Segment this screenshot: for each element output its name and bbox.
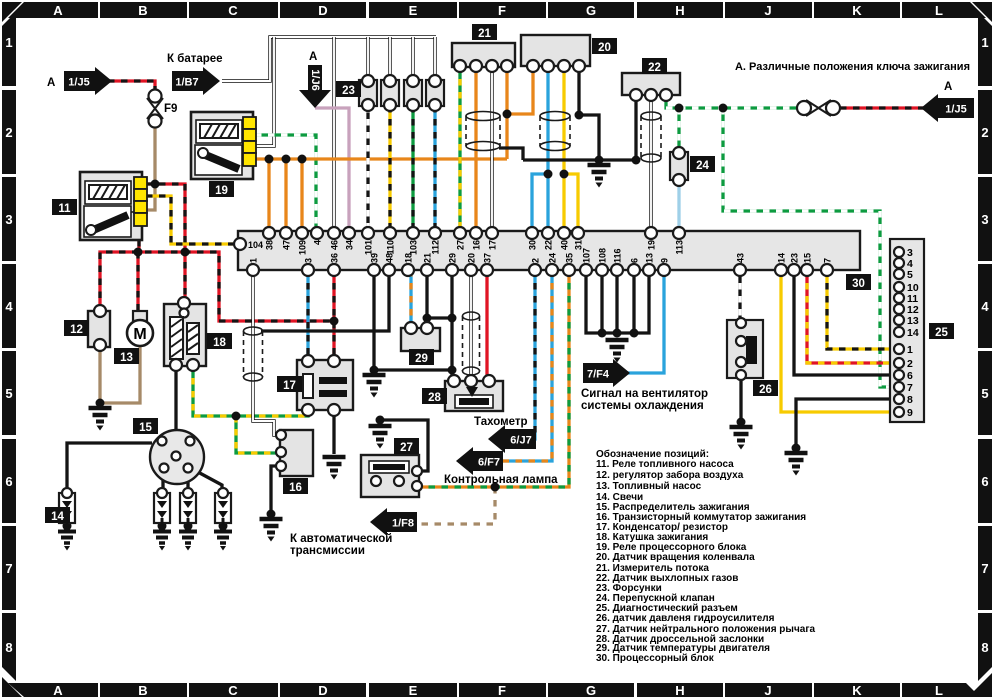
wire orange 21 to bar pin 16 xyxy=(474,66,477,233)
svg-text:3: 3 xyxy=(5,212,12,227)
wire blue/black bar pin 2 to tachometer 6/J7 xyxy=(533,270,535,439)
wire red/yellow bar pin 15 to diagnostic pin 2 xyxy=(807,270,894,363)
injector 23-2 xyxy=(381,75,399,111)
svg-text:Контрольная лампа: Контрольная лампа xyxy=(444,474,558,486)
spark plug 14-2 xyxy=(154,488,170,526)
arrow 1/J6 down xyxy=(299,65,331,108)
svg-text:104: 104 xyxy=(248,240,263,250)
wire black 16 to ground xyxy=(271,466,281,516)
svg-text:1/F8: 1/F8 xyxy=(392,518,414,530)
svg-text:А: А xyxy=(309,51,317,63)
spark plug 14-4 xyxy=(215,488,231,526)
svg-text:L: L xyxy=(935,683,943,698)
svg-text:30. Процессорный блок: 30. Процессорный блок xyxy=(596,652,715,664)
svg-text:26. датчик давленя гидроусилит: 26. датчик давленя гидроусилителя xyxy=(596,613,775,624)
wire black distributor to plug 1 xyxy=(67,443,152,493)
svg-text:30: 30 xyxy=(528,240,538,250)
wire yellow 20 to bar pins 40 and 31 xyxy=(562,66,565,233)
svg-text:43: 43 xyxy=(736,253,746,263)
svg-text:6: 6 xyxy=(630,258,640,263)
svg-text:C: C xyxy=(228,683,238,698)
svg-text:4: 4 xyxy=(313,240,323,245)
ground spark plug 4 xyxy=(214,532,232,551)
tag 30 xyxy=(846,274,871,290)
svg-text:18: 18 xyxy=(213,337,226,349)
wire green/white 22 to lamp and valve 24 xyxy=(666,95,797,108)
processor block 30 (main connector bar) xyxy=(234,231,860,270)
ground switch 27 xyxy=(369,426,392,449)
svg-text:11: 11 xyxy=(58,203,71,215)
svg-text:A: A xyxy=(53,3,63,18)
wire black bar pin 48 to shield of pin 1 wire xyxy=(261,270,389,331)
wire blue/orange bar pin 18 to sensor 29 xyxy=(409,270,412,328)
tag 27 xyxy=(394,438,419,454)
svg-text:А. Различные положения ключа з: А. Различные положения ключа зажигания xyxy=(735,61,970,73)
wire orange drops to bar pins 38 47 109 xyxy=(267,159,270,233)
arrow 7/F4 fan signal xyxy=(583,359,630,387)
bar top pins xyxy=(263,227,685,255)
svg-text:14: 14 xyxy=(51,511,64,523)
ground pumps 12 13 xyxy=(89,408,112,431)
svg-text:7: 7 xyxy=(907,382,913,394)
svg-text:5: 5 xyxy=(5,386,12,401)
tag 20 xyxy=(592,38,617,54)
svg-text:107: 107 xyxy=(582,248,592,263)
transistor commutator 16 xyxy=(276,430,313,476)
ground capacitor 17 xyxy=(323,457,346,480)
svg-text:E: E xyxy=(409,3,418,18)
wire injector 3 green/black to pin 103 xyxy=(411,106,414,233)
tag 11 xyxy=(52,199,77,215)
svg-text:1/J6: 1/J6 xyxy=(309,69,321,90)
shield around bar pin 20 wire xyxy=(463,312,480,375)
fuse F9 xyxy=(147,90,163,128)
wire green/white relay 19 to bar pin 4 xyxy=(255,135,316,233)
svg-text:109: 109 xyxy=(298,240,308,255)
svg-text:17: 17 xyxy=(283,380,296,392)
oxygen sensor 22 xyxy=(622,73,680,101)
svg-text:D: D xyxy=(318,3,327,18)
wire black bar pins 21 29 to sensor 29 xyxy=(425,270,428,328)
arrow 6/F7 control lamp xyxy=(456,447,503,475)
wire green/orange bar pin 35 to switch 27 xyxy=(419,270,569,487)
svg-text:16: 16 xyxy=(289,482,302,494)
svg-text:23: 23 xyxy=(342,85,355,97)
injector 23-3 xyxy=(404,75,422,111)
wire red/black relay 11 stub xyxy=(137,240,140,252)
tag 17 xyxy=(277,376,302,392)
svg-text:28: 28 xyxy=(428,392,441,404)
svg-text:9: 9 xyxy=(907,407,913,419)
tag 15 xyxy=(133,418,158,434)
svg-text:110: 110 xyxy=(386,240,396,255)
wire injector 4 blue/black to pin 112 xyxy=(433,106,436,233)
svg-text:H: H xyxy=(675,683,684,698)
svg-text:Сигнал на вентилятор: Сигнал на вентилятор xyxy=(581,388,708,400)
svg-text:G: G xyxy=(586,683,596,698)
svg-text:7: 7 xyxy=(5,561,12,576)
svg-text:24: 24 xyxy=(548,253,558,263)
wire violet 1/J6 to bar pin 34 xyxy=(315,108,349,233)
svg-text:112: 112 xyxy=(431,240,441,255)
wire red/black bar pin 36 to capacitor 17 xyxy=(332,270,335,361)
wire green/yellow 21 to bar pin 27 xyxy=(458,66,461,233)
svg-text:21: 21 xyxy=(478,28,491,40)
ground at sensor 20/22 shield xyxy=(588,165,611,188)
injector 23-1 xyxy=(359,75,377,111)
svg-text:30: 30 xyxy=(852,278,865,290)
temperature sensor 29 xyxy=(401,322,440,351)
ground spark plug 3 xyxy=(179,532,197,551)
svg-text:19: 19 xyxy=(647,240,657,250)
wire yellow/black bar pin 7 to diagnostic pin 1 xyxy=(827,270,894,349)
svg-text:8: 8 xyxy=(5,640,12,655)
svg-text:J: J xyxy=(764,683,771,698)
svg-text:1: 1 xyxy=(249,258,259,263)
tag 22 xyxy=(642,58,667,74)
svg-text:37: 37 xyxy=(483,253,493,263)
svg-text:7: 7 xyxy=(981,561,988,576)
svg-text:8: 8 xyxy=(981,640,988,655)
relay 11 (fuel pump relay) xyxy=(80,172,147,240)
wire white bar pin 20 to sensor 28 xyxy=(469,270,472,381)
node junction dots xyxy=(63,104,801,531)
svg-text:6/J7: 6/J7 xyxy=(510,435,531,447)
air regulator 12 xyxy=(88,305,110,351)
svg-text:13. Топливный насос: 13. Топливный насос xyxy=(596,481,702,492)
svg-text:6/F7: 6/F7 xyxy=(478,457,500,469)
svg-text:27: 27 xyxy=(456,240,466,250)
svg-text:системы охлаждения: системы охлаждения xyxy=(581,400,704,412)
wire orange riser to 21 pin4 and 20 pin1 xyxy=(505,66,508,159)
svg-text:К батарее: К батарее xyxy=(167,53,223,65)
svg-text:А: А xyxy=(944,81,952,93)
svg-text:113: 113 xyxy=(675,240,685,255)
svg-text:Тахометр: Тахометр xyxy=(474,416,528,428)
svg-text:3: 3 xyxy=(981,212,988,227)
svg-text:1: 1 xyxy=(5,35,12,50)
svg-text:29: 29 xyxy=(415,353,428,365)
svg-text:C: C xyxy=(228,3,238,18)
svg-text:16: 16 xyxy=(472,240,482,250)
svg-text:22: 22 xyxy=(544,240,554,250)
svg-text:К автоматической: К автоматической xyxy=(290,533,392,545)
svg-text:20: 20 xyxy=(598,42,611,54)
pressure sensor 26 xyxy=(727,318,763,380)
diagnostic connector 25 xyxy=(890,239,924,422)
svg-text:F: F xyxy=(498,3,506,18)
wire black bar pin 23 to diagnostic pin 6 xyxy=(794,270,894,375)
svg-text:116: 116 xyxy=(613,248,623,263)
arrow 1/J5 left xyxy=(64,67,112,95)
wire yellow bar pin 14 to diagnostic pin 9 xyxy=(781,270,894,412)
arrow 6/J7 tachometer xyxy=(488,425,536,453)
wire green/yellow coil 18 to 17 and 16 xyxy=(193,365,308,416)
svg-text:L: L xyxy=(935,3,943,18)
svg-text:25: 25 xyxy=(935,327,948,339)
wire black diagnostic pin 8 to ground xyxy=(796,399,894,450)
svg-text:108: 108 xyxy=(598,248,608,263)
tag 16 xyxy=(283,478,308,494)
svg-text:13: 13 xyxy=(120,352,133,364)
svg-text:17: 17 xyxy=(488,240,498,250)
tag 21 xyxy=(472,24,497,40)
tag 18 xyxy=(207,333,232,349)
svg-text:46: 46 xyxy=(330,240,340,250)
svg-text:38: 38 xyxy=(265,240,275,250)
svg-text:15: 15 xyxy=(803,253,813,263)
svg-text:A: A xyxy=(53,683,63,698)
svg-text:35: 35 xyxy=(565,253,575,263)
shield around bar pin 1 wire xyxy=(244,327,263,381)
svg-text:36: 36 xyxy=(330,253,340,263)
wire white 22 to bar pin 19 xyxy=(649,95,652,233)
wire blue/black bar pin 3 to capacitor 17 xyxy=(306,270,309,361)
svg-text:12. регулятор забора воздуха: 12. регулятор забора воздуха xyxy=(596,469,744,481)
svg-text:8: 8 xyxy=(907,394,913,406)
ground diagnostic pin 8 xyxy=(785,453,808,476)
arrow 1/J5 right xyxy=(921,94,974,122)
svg-text:F: F xyxy=(498,683,506,698)
wire brown ground of 12 and M xyxy=(98,345,101,403)
wire red/black to fuel pump M xyxy=(136,252,139,313)
injector 23-4 xyxy=(426,75,444,111)
svg-text:4: 4 xyxy=(981,299,989,314)
svg-text:103: 103 xyxy=(409,240,419,255)
svg-text:M: M xyxy=(133,326,146,343)
wire yellow/black relay 11 to bar pin 104 xyxy=(146,196,233,244)
wire green/white to diagnostic pin 7 xyxy=(723,108,894,387)
tag 12 xyxy=(64,320,89,336)
ground sensor 26 xyxy=(730,427,753,450)
wire blue bar pin 9 to fan 7/F4 xyxy=(624,270,664,373)
svg-text:F9: F9 xyxy=(164,103,177,115)
svg-text:А: А xyxy=(47,77,55,89)
wire blue/orange bar pin 24 to 6/F7 xyxy=(497,270,552,461)
wire blue 20 to bar pins 22 and 30 xyxy=(546,66,549,233)
wire black 17 to ground xyxy=(332,410,335,454)
wire red/black relay 11 switch feed xyxy=(146,184,185,303)
wire brown/white to 1/F8 xyxy=(412,487,495,524)
crankshaft sensor 20 xyxy=(521,35,590,72)
svg-text:5: 5 xyxy=(981,386,988,401)
wire light blue valve 24 to bar pin 113 xyxy=(677,181,680,233)
svg-text:6: 6 xyxy=(981,474,988,489)
svg-text:6: 6 xyxy=(5,474,12,489)
svg-text:3: 3 xyxy=(304,258,314,263)
bar bottom pins xyxy=(247,248,833,276)
svg-text:2: 2 xyxy=(531,258,541,263)
wire white drops to injectors 23 xyxy=(366,37,369,80)
wire red/black pump feed bus xyxy=(100,252,334,321)
tag 29 xyxy=(409,349,434,365)
wire white bar pin 1 to commutator 16 xyxy=(253,270,278,435)
tag 26 xyxy=(753,380,778,396)
svg-text:2: 2 xyxy=(907,358,913,370)
ground spark plug 2 xyxy=(153,532,171,551)
wire white bus to bar pin 46 xyxy=(332,37,335,233)
ground spark plug 1 xyxy=(58,532,76,551)
wire black bar pin 39 ground bus xyxy=(374,270,453,370)
svg-text:48: 48 xyxy=(385,253,395,263)
tag 14 xyxy=(45,507,70,523)
wire black distributor to plugs 2 3 4 xyxy=(161,477,164,493)
distributor 15 xyxy=(150,430,204,484)
svg-text:G: G xyxy=(586,3,596,18)
svg-text:1/B7: 1/B7 xyxy=(175,77,198,89)
arrow 1/B7 to battery xyxy=(172,67,220,95)
wire black coil 18 to distributor 15 xyxy=(174,365,177,432)
spark plug 14-1 xyxy=(59,488,75,526)
svg-text:4: 4 xyxy=(5,299,13,314)
svg-text:26: 26 xyxy=(759,384,772,396)
svg-text:18: 18 xyxy=(404,253,414,263)
svg-text:H: H xyxy=(675,3,684,18)
tag 23 xyxy=(336,81,361,97)
capacitor/resistor 17 xyxy=(297,355,353,416)
svg-text:B: B xyxy=(138,3,147,18)
svg-text:D: D xyxy=(318,683,327,698)
wire brown F9 to relay 11 coil xyxy=(146,126,155,210)
svg-text:29: 29 xyxy=(448,253,458,263)
svg-text:101: 101 xyxy=(364,240,374,255)
wire white bus from 1/B7 xyxy=(222,37,436,81)
svg-text:E: E xyxy=(409,683,418,698)
tag 19 xyxy=(209,181,234,197)
svg-text:21: 21 xyxy=(423,253,433,263)
svg-text:13: 13 xyxy=(907,315,919,327)
wire injector 2 yellow/black to pin 110 xyxy=(388,106,391,233)
svg-text:J: J xyxy=(764,3,771,18)
svg-text:K: K xyxy=(852,3,862,18)
wire white 21 to bar pin 17 xyxy=(490,66,493,233)
ignition coil 18 xyxy=(164,297,206,371)
svg-text:1/J5: 1/J5 xyxy=(68,77,89,89)
bypass valve 24 xyxy=(670,147,688,186)
svg-text:20: 20 xyxy=(467,253,477,263)
svg-text:47: 47 xyxy=(282,240,292,250)
svg-text:15: 15 xyxy=(139,422,152,434)
svg-text:1: 1 xyxy=(907,344,913,356)
wire white to relay 19 coil xyxy=(255,37,274,146)
shield around 22 sensor wire xyxy=(641,112,661,162)
svg-text:40: 40 xyxy=(560,240,570,250)
wire black bar pins 107 108 116 6 13 ground xyxy=(586,270,649,333)
ignition switch lamp symbol xyxy=(797,100,840,116)
ground commutator 16 xyxy=(260,519,283,542)
ground bar pins 107-13 xyxy=(606,340,629,363)
tag 25 xyxy=(929,323,954,339)
wire red bar pin 37 to sensor 28 xyxy=(485,270,488,381)
svg-text:K: K xyxy=(852,683,862,698)
svg-text:5: 5 xyxy=(907,269,913,281)
fuel pump 13 (motor M) xyxy=(127,311,153,346)
wire injector 1 black/white to pin 101 xyxy=(366,106,369,233)
svg-text:2: 2 xyxy=(5,125,12,140)
svg-text:1: 1 xyxy=(981,35,988,50)
svg-text:9: 9 xyxy=(660,258,670,263)
relay 19 (processor block relay) xyxy=(191,112,256,179)
tag 13 xyxy=(114,348,139,364)
shield around 20 sensor wires xyxy=(540,112,570,151)
air flow meter 21 xyxy=(452,43,515,72)
throttle sensor 28 xyxy=(445,375,503,411)
svg-text:2: 2 xyxy=(981,125,988,140)
wire black sensor 26 to ground xyxy=(739,375,742,424)
svg-text:трансмиссии: трансмиссии xyxy=(290,545,365,557)
svg-text:34: 34 xyxy=(345,240,355,250)
svg-text:12: 12 xyxy=(70,324,83,336)
svg-text:24: 24 xyxy=(696,160,709,172)
svg-text:20. Датчик вращения коленвала: 20. Датчик вращения коленвала xyxy=(596,552,755,563)
wire orange relay 19 bus xyxy=(255,157,507,160)
svg-text:7/F4: 7/F4 xyxy=(587,369,610,381)
arrow 1/F8 automatic transmission xyxy=(370,508,417,536)
svg-text:19: 19 xyxy=(215,185,228,197)
wire black 20 pin4 to ground bus xyxy=(579,66,599,160)
svg-text:11. Реле топливного насоса: 11. Реле топливного насоса xyxy=(596,459,734,470)
tag 24 xyxy=(690,156,715,172)
svg-text:14: 14 xyxy=(777,253,787,263)
svg-text:7: 7 xyxy=(823,258,833,263)
legend xyxy=(596,448,815,664)
svg-text:23: 23 xyxy=(790,253,800,263)
shield around 21 sensor wires xyxy=(466,112,500,151)
svg-text:B: B xyxy=(138,683,147,698)
spark plug 14-3 xyxy=(180,488,196,526)
wire black/white bar pin 43 to sensor 26 xyxy=(738,270,741,323)
svg-text:6: 6 xyxy=(907,370,913,382)
wire black switch 27 to ground xyxy=(380,420,428,471)
svg-text:13: 13 xyxy=(645,253,655,263)
wire 1/J5 feed red/black to fuse F9 xyxy=(108,81,155,90)
wire red/black lamp to 1/J5 right xyxy=(840,106,924,109)
svg-text:14: 14 xyxy=(907,327,919,339)
neutral switch 27 xyxy=(361,455,422,497)
svg-text:39: 39 xyxy=(370,253,380,263)
svg-text:27: 27 xyxy=(400,442,413,454)
tag 28 xyxy=(422,388,447,404)
svg-text:1/J5: 1/J5 xyxy=(945,104,966,116)
svg-text:22: 22 xyxy=(648,62,661,74)
ground bar pin 39 xyxy=(363,375,386,398)
